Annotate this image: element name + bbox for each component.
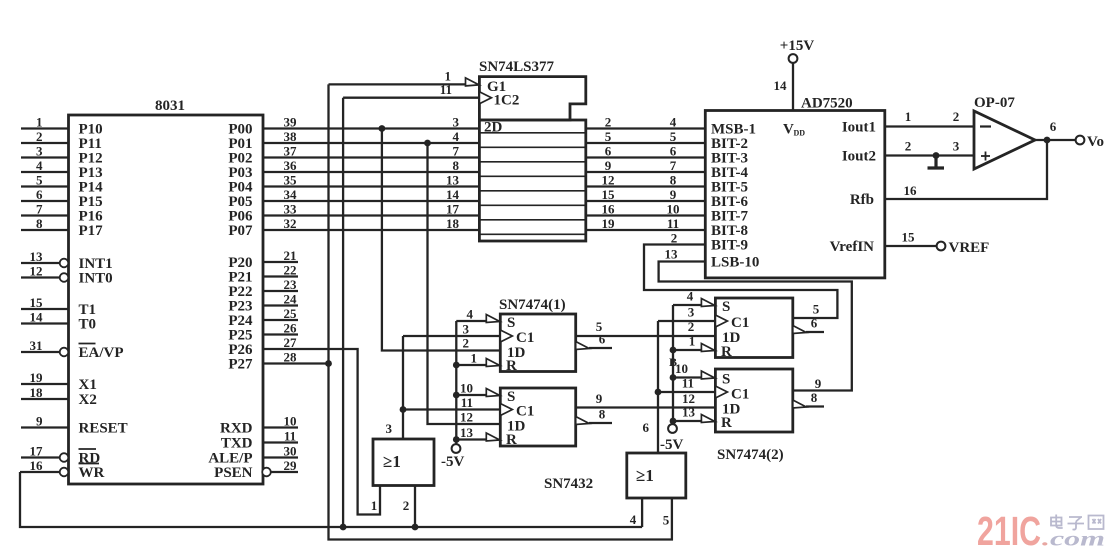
wedge and wire U6B Qbar pin 8 <box>793 390 824 408</box>
wire VrefIN pin 15 <box>885 230 937 247</box>
svg-text:2: 2 <box>953 109 960 124</box>
wire U5A 1D pin 2 from P00 <box>382 129 500 351</box>
svg-text:32: 32 <box>284 216 297 231</box>
svg-text:2: 2 <box>905 139 912 154</box>
power +15V terminal pin 14 <box>774 38 815 111</box>
svg-text:31: 31 <box>30 338 43 353</box>
svg-text:19: 19 <box>602 216 616 231</box>
svg-text:6: 6 <box>1050 119 1057 134</box>
svg-text:C1: C1 <box>516 404 534 420</box>
power -5V terminal right <box>660 424 683 453</box>
svg-text:12: 12 <box>602 173 615 188</box>
svg-text:30: 30 <box>284 444 297 459</box>
junction OR2 output / U6B C1 <box>655 389 662 396</box>
svg-text:Rfb: Rfb <box>850 192 874 208</box>
svg-text:22: 22 <box>284 263 297 278</box>
svg-text:Iout1: Iout1 <box>842 120 876 136</box>
svg-text:V: V <box>783 122 794 138</box>
net -5V tie U6 S/R pins <box>672 305 674 424</box>
wire U5A R pin 1 <box>456 350 487 365</box>
svg-text:8: 8 <box>36 216 43 231</box>
junction P01 tap <box>424 140 431 147</box>
wire LSB-10 pin 13 from U6B output 9 <box>659 247 852 391</box>
svg-text:10: 10 <box>284 414 297 429</box>
svg-text:8: 8 <box>811 390 818 405</box>
wedge and wire U5A Qbar pin 6 <box>576 332 612 350</box>
power -5V terminal left <box>441 444 464 470</box>
svg-text:OP-07: OP-07 <box>974 95 1015 111</box>
junction OR1 output / U5B C1 <box>400 406 407 413</box>
svg-text:X1: X1 <box>79 377 97 393</box>
svg-text:EA/VP: EA/VP <box>79 345 124 361</box>
svg-text:R: R <box>506 432 517 448</box>
svg-text:18: 18 <box>30 385 44 400</box>
latch U2 SN74LS377 <box>479 59 586 241</box>
wire X2 pin 18 <box>21 385 69 400</box>
svg-text:5: 5 <box>605 129 612 144</box>
svg-text:4: 4 <box>630 512 637 527</box>
svg-text:13: 13 <box>665 247 679 262</box>
svg-text:5: 5 <box>813 302 820 317</box>
svg-text:P27: P27 <box>228 357 253 373</box>
svg-text:Vo: Vo <box>1087 134 1104 150</box>
svg-text:VREF: VREF <box>949 240 990 256</box>
svg-text:34: 34 <box>284 187 298 202</box>
wire U5B S pin 10 <box>456 380 487 395</box>
svg-text:3: 3 <box>463 321 470 336</box>
wire EA/VP pin 31 <box>21 338 68 356</box>
wedge and wire U6A Qbar pin 6 <box>793 316 824 334</box>
wire P26 pin 27 to OR1 input 1 <box>263 335 380 514</box>
svg-text:8: 8 <box>599 407 606 422</box>
svg-text:8: 8 <box>453 158 460 173</box>
svg-text:24: 24 <box>284 292 298 307</box>
wire U6A S pin 4 <box>673 289 702 306</box>
svg-text:+15V: +15V <box>780 38 815 54</box>
wedge U6A S pin 4 <box>701 299 715 307</box>
svg-text:R: R <box>506 358 517 374</box>
junction U5B S tie <box>453 392 460 399</box>
svg-text:13: 13 <box>460 425 474 440</box>
wire ALE/P pin 30 <box>263 444 298 459</box>
svg-text:11: 11 <box>682 376 694 391</box>
svg-text:4: 4 <box>687 289 694 304</box>
wire P27 pin 28 net: to latch G1 and OR2 input 5 <box>263 84 672 539</box>
wedge U5A S pin 4 <box>486 315 500 323</box>
svg-text:18: 18 <box>446 216 460 231</box>
junction P00 tap <box>379 125 386 132</box>
junction 1C2/WR <box>340 524 347 531</box>
clock triangle U5B C1 <box>500 404 512 416</box>
svg-text:1C2: 1C2 <box>494 93 520 109</box>
svg-text:13: 13 <box>30 249 44 264</box>
svg-text:10: 10 <box>675 361 688 376</box>
svg-text:12: 12 <box>30 264 43 279</box>
svg-text:SN7474(2): SN7474(2) <box>717 447 784 463</box>
junction output/feedback <box>1044 137 1051 144</box>
ground at Iout2 <box>928 156 945 169</box>
svg-text:TXD: TXD <box>221 436 253 452</box>
junction P27/G1 <box>325 360 332 367</box>
terminal Vo <box>1076 134 1104 150</box>
svg-text:P07: P07 <box>228 223 253 239</box>
svg-text:Iout2: Iout2 <box>842 149 876 165</box>
svg-text:35: 35 <box>284 173 298 188</box>
clock triangle U5A C1 <box>500 330 512 342</box>
svg-text:2: 2 <box>671 231 678 246</box>
svg-text:AD7520: AD7520 <box>801 96 853 112</box>
wire OR2 input 5 (from P27 net) <box>663 513 670 528</box>
svg-text:1: 1 <box>36 115 43 130</box>
svg-text:16: 16 <box>30 458 44 473</box>
svg-text:10: 10 <box>667 202 680 217</box>
wire U5B 1D pin 12 from P01 <box>428 143 501 424</box>
wedge G1 enable polarity <box>466 78 480 86</box>
wire latch G1 pin 1 (from P27 net) <box>329 69 467 85</box>
svg-text:3: 3 <box>36 144 43 159</box>
svg-text:2: 2 <box>403 498 410 513</box>
svg-text:C1: C1 <box>516 330 534 346</box>
wire U5A S pin 4 <box>456 306 487 321</box>
wedge U6B S pin 10 <box>701 371 715 379</box>
wire INT0 pin 12 <box>21 264 68 282</box>
junction U6A R tie <box>670 347 677 354</box>
op-amp U4 OP-07 <box>974 95 1035 169</box>
svg-text:17: 17 <box>446 202 460 217</box>
svg-text:R: R <box>721 344 732 360</box>
svg-text:3: 3 <box>953 139 960 154</box>
svg-text:RXD: RXD <box>220 421 253 437</box>
flip-flop U5B SN7474(1) lower <box>500 388 575 448</box>
label U6A 1D pin 2 <box>688 319 695 334</box>
wire OR1 input 2 (from WR net) <box>403 486 415 528</box>
svg-text:6: 6 <box>36 187 43 202</box>
svg-text:14: 14 <box>30 310 44 325</box>
svg-text:11: 11 <box>284 429 296 444</box>
wire T1 pin 15 <box>21 295 69 310</box>
microcontroller U1 8031 <box>69 98 264 484</box>
wire Iout2 pin 2 to op-amp pin 3 <box>885 139 974 156</box>
wire U5B C1 pin 11 from OR1 output <box>403 395 500 410</box>
wire U6B Q pin 9 (to LSB-10 net) <box>815 376 822 391</box>
svg-text:9: 9 <box>605 158 612 173</box>
wire latch 1C2 clock pin 11 (from WR net) <box>343 82 479 527</box>
DAC U3 AD7520 <box>705 96 885 278</box>
svg-text:8: 8 <box>670 173 677 188</box>
svg-text:PSEN: PSEN <box>214 465 253 481</box>
svg-text:21: 21 <box>284 248 297 263</box>
svg-text:RESET: RESET <box>79 421 128 437</box>
svg-text:7: 7 <box>670 158 677 173</box>
svg-text:13: 13 <box>682 405 696 420</box>
svg-text:9: 9 <box>815 376 822 391</box>
wire RXD pin 10 <box>263 414 298 429</box>
svg-text:3: 3 <box>688 305 695 320</box>
wire BIT-9 pin 2 from U6A output 5 <box>644 231 837 318</box>
wire PSEN pin 29 <box>262 458 298 476</box>
svg-text:2D: 2D <box>484 120 503 136</box>
junction Iout2/ground <box>933 152 940 159</box>
wire bus P00-P07 pins 39-32 to latch inputs 3,4,7,8,13,14,17,18 <box>263 115 479 232</box>
svg-text:C1: C1 <box>731 387 749 403</box>
wire Rfb pin 16 feedback to output node <box>885 140 1047 199</box>
svg-text:S: S <box>507 315 515 331</box>
svg-text:2: 2 <box>463 335 470 350</box>
svg-text:14: 14 <box>446 187 460 202</box>
svg-text:X2: X2 <box>79 392 97 408</box>
svg-text:7: 7 <box>453 144 460 159</box>
svg-text:3: 3 <box>453 115 460 130</box>
wire T0 pin 14 <box>21 310 69 325</box>
svg-text:5: 5 <box>663 513 670 528</box>
OR gate U7A SN7432 left <box>373 439 434 486</box>
svg-text:DD: DD <box>794 129 806 138</box>
svg-text:SN7474(1): SN7474(1) <box>499 297 566 313</box>
svg-text:19: 19 <box>30 370 44 385</box>
svg-text:11: 11 <box>667 216 679 231</box>
svg-text:15: 15 <box>30 295 44 310</box>
wedge U5A R pin 1 <box>486 359 500 367</box>
wire op-amp output pin 6 to Vo <box>1035 119 1076 140</box>
svg-text:P17: P17 <box>79 223 104 239</box>
svg-text:6: 6 <box>670 144 677 159</box>
svg-text:11: 11 <box>461 395 473 410</box>
svg-text:4: 4 <box>467 306 474 321</box>
wire U5A Q pin 5 to U6A 1D pin 2 <box>576 319 716 336</box>
svg-text:9: 9 <box>596 391 603 406</box>
svg-text:15: 15 <box>602 187 616 202</box>
wire bus P10-P17 pins 1-8 <box>21 115 69 232</box>
svg-text:1: 1 <box>471 350 478 365</box>
terminal VREF <box>937 240 990 256</box>
label SN7432 <box>544 476 593 492</box>
svg-text:SN74LS377: SN74LS377 <box>479 59 555 75</box>
junction U5A R tie <box>453 362 460 369</box>
svg-text:SN7432: SN7432 <box>544 476 593 492</box>
clock triangle U6B C1 <box>715 386 727 398</box>
wire U5B Q pin 9 to U6B 1D pin 12 <box>576 391 716 408</box>
junction OR1 input2 / WR <box>412 524 419 531</box>
clock triangle U6A C1 <box>715 315 727 327</box>
wedge and wire U5B Qbar pin 8 <box>576 407 612 425</box>
svg-text:C1: C1 <box>731 315 749 331</box>
wedge U6B R pin 13 <box>701 415 715 423</box>
wire U5A C1 pin 3 from OR1 output <box>403 321 500 336</box>
svg-text:2: 2 <box>36 129 43 144</box>
flip-flop U6A SN7474(2) upper <box>669 298 793 369</box>
wire OR2 input 4 (from WR net) <box>630 498 642 527</box>
wire U6A Q pin 5 (to BIT-9 net) <box>813 302 820 317</box>
svg-text:17: 17 <box>30 444 44 459</box>
svg-text:≥1: ≥1 <box>383 452 401 471</box>
label U6B 1D pin 12 <box>682 391 695 406</box>
svg-text:9: 9 <box>36 414 43 429</box>
svg-text:29: 29 <box>284 458 298 473</box>
svg-text:WR: WR <box>79 465 105 481</box>
flip-flop U6B SN7474(2) lower <box>715 369 792 463</box>
wire Iout1 pin 1 to op-amp pin 2 <box>885 109 974 127</box>
svg-text:5: 5 <box>670 129 677 144</box>
svg-text:16: 16 <box>602 202 616 217</box>
svg-text:3: 3 <box>386 421 393 436</box>
svg-text:≥1: ≥1 <box>636 466 654 485</box>
svg-text:4: 4 <box>453 129 460 144</box>
svg-text:6: 6 <box>811 316 818 331</box>
svg-text:23: 23 <box>284 277 298 292</box>
svg-text:6: 6 <box>605 144 612 159</box>
wire X1 pin 19 <box>21 370 69 385</box>
wire bus latch outputs 2,5,6,9,12,15,16,19 to AD7520 pins 4-11 <box>586 115 706 232</box>
svg-text:VrefIN: VrefIN <box>830 239 875 255</box>
clock triangle 1C2 <box>479 92 491 104</box>
svg-text:38: 38 <box>284 129 298 144</box>
wire OR1 output pin 3 to U5 clocks <box>386 336 404 439</box>
wire INT1 pin 13 <box>21 249 68 267</box>
svg-text:S: S <box>507 389 515 405</box>
svg-text:13: 13 <box>446 173 460 188</box>
svg-text:10: 10 <box>460 380 473 395</box>
wire U6B S pin 10 <box>673 361 702 378</box>
wire OR1 input 1 (from P26) <box>371 498 378 513</box>
svg-text:LSB-10: LSB-10 <box>711 255 759 271</box>
svg-text:1: 1 <box>905 109 912 124</box>
OR gate U7B SN7432 right <box>627 453 686 498</box>
svg-text:8031: 8031 <box>155 98 185 114</box>
svg-text:-5V: -5V <box>660 437 683 453</box>
wire U6A C1 pin 3 from OR2 output <box>658 305 715 322</box>
svg-text:33: 33 <box>284 202 298 217</box>
svg-text:1: 1 <box>371 498 378 513</box>
svg-text:14: 14 <box>774 78 788 93</box>
svg-text:25: 25 <box>284 306 298 321</box>
logo 21IC.com <box>977 508 1105 554</box>
svg-text:T0: T0 <box>79 317 97 333</box>
svg-text:4: 4 <box>36 158 43 173</box>
wire bus P20-P25 pins 21-26 <box>263 248 298 336</box>
wire RESET pin 9 <box>21 414 69 429</box>
junction U6B R tie <box>670 418 677 425</box>
wedge U5B R pin 13 <box>486 433 500 441</box>
svg-text:21IC: 21IC <box>977 508 1041 554</box>
junction U6B S tie <box>670 374 677 381</box>
svg-text:36: 36 <box>284 158 298 173</box>
svg-text:26: 26 <box>284 321 298 336</box>
wire U6B C1 pin 11 from OR2 output <box>658 376 715 393</box>
wire U5B R pin 13 <box>456 425 487 440</box>
wedge U5B S pin 10 <box>486 389 500 397</box>
svg-text:BIT-9: BIT-9 <box>711 238 748 254</box>
svg-text:-5V: -5V <box>441 454 464 470</box>
svg-text:S: S <box>722 299 730 315</box>
svg-text:5: 5 <box>36 173 43 188</box>
wire OR2 output pin 6 to U6 clocks <box>643 321 659 453</box>
net -5V tie U5 S/R pins <box>455 321 457 444</box>
svg-text:INT0: INT0 <box>79 271 113 287</box>
svg-text:S: S <box>722 372 730 388</box>
svg-text:9: 9 <box>670 187 677 202</box>
svg-text:R: R <box>721 415 732 431</box>
svg-text:1: 1 <box>689 334 696 349</box>
svg-text:4: 4 <box>670 115 677 130</box>
svg-text:7: 7 <box>36 202 43 217</box>
svg-text:12: 12 <box>460 409 473 424</box>
wire TXD pin 11 <box>263 429 298 444</box>
wire U6A R pin 1 <box>673 334 702 351</box>
svg-text:39: 39 <box>284 115 298 130</box>
wire U6B R pin 13 <box>673 405 702 422</box>
wire RD pin 17 <box>21 444 68 462</box>
svg-text:6: 6 <box>643 420 650 435</box>
flip-flop U5A SN7474(1) upper <box>499 297 576 374</box>
svg-text:.com: .com <box>1042 529 1105 551</box>
svg-text:2: 2 <box>605 115 612 130</box>
svg-text:11: 11 <box>440 82 452 97</box>
svg-text:6: 6 <box>599 332 606 347</box>
svg-text:16: 16 <box>904 183 918 198</box>
svg-text:2: 2 <box>688 319 695 334</box>
svg-text:37: 37 <box>284 144 298 159</box>
wedge U6A R pin 1 <box>701 344 715 352</box>
wire WR pin 16 net: to 1C2, OR1 input 2, OR2 input 4 <box>20 458 642 527</box>
junction U5B R tie <box>453 436 460 443</box>
svg-text:15: 15 <box>902 230 916 245</box>
